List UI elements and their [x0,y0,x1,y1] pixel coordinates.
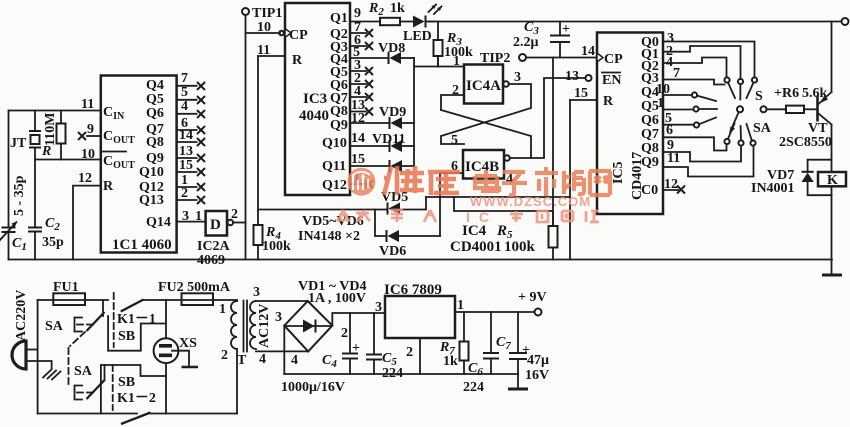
svg-text:2: 2 [221,348,228,363]
wire relay to ground [831,186,833,275]
wire net y197 [426,196,570,198]
wire C1 branch [8,111,10,227]
svg-text:+: + [352,341,360,356]
transformer core [244,301,248,352]
svg-text:3: 3 [514,70,521,85]
watermark char zi [502,172,527,195]
svg-text:1: 1 [453,54,460,69]
svg-text:224: 224 [382,366,403,381]
svg-text:Q10: Q10 [139,165,164,180]
linkage SA dashed [69,332,86,384]
resistor R7 1k [460,312,469,374]
watermark logo disc [347,168,375,196]
transformer T secondary [250,301,256,349]
svg-text:WWW.DZSC.COM: WWW.DZSC.COM [470,194,591,209]
svg-text:4069: 4069 [197,253,225,268]
diode Q11 row [350,160,414,172]
svg-text:VD8: VD8 [378,41,405,56]
svg-text:1k: 1k [443,354,458,369]
wire diode common column [413,58,415,167]
SEC2 IC1 [73,71,246,268]
wire bridge minus down [283,326,285,374]
wire secondary bottom to bridge [256,350,308,352]
svg-text:SB: SB [118,375,135,390]
op-amp gate IC4A [464,65,503,104]
watermark char wang [589,171,611,195]
wire R5 to CP net [552,58,554,227]
svg-text:C0: C0 [641,183,658,198]
wire IC6 gnd [419,338,421,374]
crystal JT [29,111,41,160]
wire TIP1 vertical [245,15,247,260]
svg-text:VD5~VD6: VD5~VD6 [302,214,364,229]
svg-text:100k: 100k [504,239,536,255]
diode VD9 [350,117,414,129]
svg-text:2.2μ: 2.2μ [513,35,539,50]
wire Q9 harness [663,146,754,177]
svg-text:VD11: VD11 [372,132,405,147]
capacitor C5 [366,313,382,374]
svg-text:13: 13 [179,144,193,159]
svg-text:Q9: Q9 [330,118,348,133]
wire A right [144,299,238,301]
watermark char wei [384,166,424,195]
svg-text:IN4001: IN4001 [751,181,795,196]
svg-text:7: 7 [181,71,188,86]
wire Q0 harness [663,42,755,78]
svg-text:2: 2 [231,207,238,222]
terminal TIP2 [519,54,526,61]
svg-text:10: 10 [81,147,95,162]
svg-text:Q7: Q7 [641,127,659,142]
svg-text:1k: 1k [390,1,405,16]
svg-text:15: 15 [351,152,365,167]
wire reset pin15 [570,99,597,101]
svg-text:35p: 35p [42,235,64,250]
resistor R5 100k [549,226,558,260]
wire cross coupling [441,84,531,144]
svg-text:14: 14 [179,128,193,143]
transformer T primary [231,300,237,414]
svg-text:12: 12 [78,171,92,186]
svg-text:47μ: 47μ [527,353,549,368]
rotary switch SA contacts [692,77,767,145]
svg-text:CP: CP [289,28,308,43]
svg-text:16V: 16V [525,368,549,383]
svg-text:4: 4 [181,99,188,114]
svg-text:4: 4 [291,353,298,368]
nor gate IC4B [463,150,504,179]
svg-text:110M: 110M [43,113,58,146]
svg-text:Q6: Q6 [641,113,659,128]
terminal +9V [535,309,542,316]
svg-text:9: 9 [354,6,361,21]
capacitor C7 [509,312,527,374]
svg-text:FU2 500mA: FU2 500mA [158,280,231,295]
wire emitter to rail [831,22,833,93]
wire Q2 harness [663,58,727,78]
svg-text:D: D [210,217,221,233]
wire collector down [831,125,833,173]
transistor VT 2SC8550 [818,92,832,125]
switch SA pole1 [75,300,105,332]
svg-text:1: 1 [457,298,464,313]
svg-text:Q6: Q6 [146,106,164,121]
wire CP net [526,57,597,59]
switch SA pole2 [75,365,105,400]
IC3 outputs [322,6,373,193]
switch radial lines [697,83,753,142]
svg-text:Q12: Q12 [322,178,347,193]
ground [822,274,842,277]
svg-text:AC220V: AC220V [14,290,29,341]
LED [413,5,442,28]
SEC1 oscillator [0,111,832,260]
svg-text:Q8: Q8 [146,135,164,150]
capacitor C3 2.2u [550,22,570,58]
svg-text:TIP2: TIP2 [480,51,510,66]
regulator IC6 7809 [385,296,455,338]
wire bottom rail [38,413,237,415]
wire Q6 harness [663,124,694,126]
wire secondary top to bridge [256,300,308,302]
IC1 outputs Q4-Q13 with x marks [139,71,205,208]
svg-text:1C1 4060: 1C1 4060 [112,237,172,253]
wire Q5 harness [663,109,693,111]
svg-text:AC12V: AC12V [257,304,272,348]
svg-text:CP: CP [604,52,623,67]
svg-text:2SC8550: 2SC8550 [779,135,832,150]
ground dc [517,374,519,388]
svg-text:SA: SA [74,364,93,379]
svg-text:VT: VT [808,121,828,136]
wire +9V top rail [430,21,842,23]
svg-text:Q11: Q11 [322,159,346,174]
svg-text:100k: 100k [262,239,291,254]
svg-text:15: 15 [179,158,193,173]
wire wiper out [767,108,787,110]
capacitor C4 [342,313,358,374]
svg-text:Q8: Q8 [330,104,348,119]
svg-text:14: 14 [581,44,595,59]
wire step to R5 [454,197,553,226]
svg-text:TIP1: TIP1 [252,6,282,21]
svg-text:5: 5 [451,133,458,148]
svg-text:+: + [562,22,570,37]
svg-text:T: T [237,353,247,368]
diode VD7 IN4001 [802,160,832,196]
svg-text:VD9: VD9 [379,105,406,120]
IC1 4060 [101,76,177,253]
resistor R 110M [57,111,66,160]
inverter IC2A 4069 [206,211,227,236]
SEC4 diodes / IC4 [254,20,598,260]
wire reset net horizontal [258,209,387,211]
SEC3 IC3 [242,1,849,260]
diode VD11 [350,140,414,152]
resistor R4 100k [254,225,263,260]
svg-text:1: 1 [219,302,226,317]
svg-text:SA: SA [753,121,772,136]
socket XS [154,300,198,414]
svg-text:15: 15 [574,86,588,101]
svg-text:2: 2 [341,326,348,341]
svg-text:4: 4 [259,352,266,367]
svg-text:Q10: Q10 [322,136,347,151]
svg-text:SB: SB [118,329,135,344]
watermark char ku [428,172,460,195]
svg-text:Q9: Q9 [146,151,164,166]
SEC6 power supply [12,279,549,424]
wire C0 stub x [663,189,678,191]
svg-text:Q14: Q14 [146,215,171,230]
watermark char chang [564,171,584,194]
svg-text:R: R [103,179,114,194]
resistor R2 1k [350,21,380,23]
wire node A [9,110,101,112]
svg-text:4040: 4040 [299,108,329,124]
diode VD5 [388,197,427,215]
svg-text:CD4001: CD4001 [450,239,502,255]
earth hatch [43,370,61,380]
svg-text:5: 5 [181,85,188,100]
wire Q7 harness [663,137,727,150]
svg-text:IC5: IC5 [611,161,626,184]
watermark slogan row [337,210,599,222]
svg-text:2: 2 [406,345,413,360]
svg-text:+R6: +R6 [774,86,799,101]
svg-text:9: 9 [87,122,94,137]
wire bridge plus out [332,313,385,326]
svg-text:FU1: FU1 [53,280,79,295]
svg-text:11: 11 [667,151,680,166]
svg-text:EN: EN [602,73,621,88]
svg-text:IC6 7809: IC6 7809 [384,282,442,298]
capacitor C2 [28,160,42,260]
wire dc bottom rail [284,373,518,375]
svg-text:3: 3 [275,310,282,325]
svg-text:IC4B: IC4B [465,159,499,175]
wire IC4A pin1 row [414,66,464,68]
fuse FU2 500mA [182,293,214,305]
svg-text:K1－1: K1－1 [117,312,156,327]
SEC7 watermark [337,166,611,225]
svg-text:2: 2 [181,186,188,201]
svg-text:+ 9V: + 9V [518,290,547,305]
svg-text:R: R [603,94,614,109]
wire EN circle [586,75,592,81]
svg-text:IC3: IC3 [303,91,327,107]
svg-text:LED: LED [403,29,432,44]
svg-text:3: 3 [253,285,260,300]
wire IC6 out [455,311,535,313]
svg-text:Q9: Q9 [641,155,659,170]
svg-text:IC4A: IC4A [466,78,501,94]
wire node B [35,159,101,161]
svg-text:K: K [827,173,838,188]
wire R pin11 net [257,56,259,225]
wire Q1 harness [663,46,741,79]
resistor R3 100k [434,22,443,67]
svg-text:JT: JT [10,136,27,151]
watermark char shi [535,167,558,196]
ground rail [9,259,833,261]
wire Q4 harness [663,94,692,96]
svg-text:IC2A: IC2A [197,239,231,254]
diode VD8 [350,52,414,64]
svg-text:SA: SA [45,319,64,334]
relay contact K1-1 [121,300,144,312]
fuse FU1 [53,293,85,305]
wire A top [38,299,108,301]
svg-text:Q5: Q5 [146,92,164,107]
svg-text:13: 13 [565,69,579,84]
svg-text:Q1: Q1 [330,11,348,26]
svg-text:Q8: Q8 [641,141,659,156]
svg-text:S: S [755,89,763,104]
node R3 junction [437,56,439,67]
bridge rectifier VD1~VD4 [284,301,332,351]
IC5 CD4017 [597,33,663,215]
switch wiper arrow [731,113,739,132]
svg-text:IC4: IC4 [462,223,487,239]
relay K [818,172,846,186]
svg-text:K1－2: K1－2 [117,391,156,406]
svg-text:Q4: Q4 [146,78,164,93]
relay contact K1-2 [121,413,151,425]
svg-text:11: 11 [81,97,94,112]
IC3 4040 [285,3,350,195]
IC5 output labels [641,31,680,198]
svg-text:IN4148 ×2: IN4148 ×2 [298,229,360,244]
resistor R6 5.6k [786,106,804,113]
wire pin6 vertical [439,173,441,236]
wire Q3 harness [663,80,725,85]
svg-text:1000μ/16V: 1000μ/16V [281,380,345,395]
terminal +9V rail end [842,18,849,25]
svg-text:14: 14 [351,131,365,146]
SEC5 IC5 + switch + VT [597,22,846,276]
svg-text:5 - 35p: 5 - 35p [12,175,27,216]
capacitor C1 [0,222,17,260]
capacitor C6 [483,312,499,374]
svg-text:XS: XS [179,336,197,351]
wire Q8 harness [663,146,741,162]
svg-text:IC: IC [466,209,498,225]
wire mains left vertical [37,300,39,414]
plug AC220V [12,341,52,369]
diode VD6 [387,230,441,242]
wire IC4B out to EN [510,78,586,158]
svg-text:R: R [292,53,303,68]
svg-text:3: 3 [375,300,382,315]
wire VD6 branch [375,210,386,237]
svg-text:224: 224 [463,380,484,395]
svg-text:VD6: VD6 [379,244,406,259]
terminal TIP1 [242,8,249,15]
watermark char dian [475,170,499,192]
svg-text:Q13: Q13 [139,193,164,208]
svg-text:1A , 100V: 1A , 100V [308,291,366,306]
